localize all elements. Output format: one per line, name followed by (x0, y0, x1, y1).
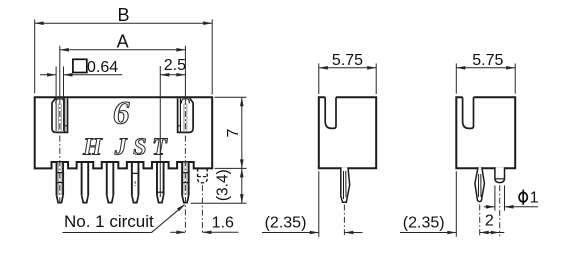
end view: body outline (456, 97, 515, 168)
front view: pin 5 lead (82, 162, 89, 203)
svg-text:2.5: 2.5 (164, 57, 186, 74)
end view: pin lead (kinked profile) (475, 167, 485, 201)
side view: pin centerline (343, 205, 345, 237)
svg-text:1.6: 1.6 (212, 215, 234, 232)
dimension 1.6 (170, 215, 238, 235)
dimension B extension lines (35, 19, 213, 94)
dimension 2.5 extension line (pin 5) (159, 66, 161, 197)
side view: dimension (2.35) (262, 214, 363, 234)
svg-text:(3.4): (3.4) (214, 169, 231, 201)
svg-text:0.64: 0.64 (87, 59, 118, 76)
dimension A extension lines (60, 46, 186, 97)
front view: connector body outline (35, 97, 213, 168)
label "No. 1 circuit" with leader arrow (63, 204, 186, 232)
front view: hidden boss (dashed) (198, 168, 208, 182)
side view: body outline (319, 97, 376, 168)
end view: pin centerline (479, 205, 481, 237)
dimension □0.64 (40, 59, 122, 76)
side view: dimension 5.75 (319, 52, 376, 69)
front view: pin 2 lead (157, 162, 164, 203)
front view: pin 3 lead (132, 162, 139, 203)
front view: pin 1 lead (182, 162, 189, 203)
end view: boss centerline (499, 185, 501, 236)
front view: pin detail ticks (57, 162, 189, 195)
dimension 2.5 (160, 57, 186, 77)
dimension 7 extension lines (215, 97, 247, 168)
svg-text:S: S (133, 134, 146, 160)
svg-text:7: 7 (225, 128, 242, 137)
svg-text:2: 2 (485, 213, 494, 230)
svg-text:No. 1 circuit: No. 1 circuit (64, 212, 154, 231)
dimension (3.4) extension line (pin tip) (191, 202, 247, 204)
svg-text:5.75: 5.75 (472, 52, 503, 69)
dimension A (60, 32, 186, 52)
side view: latch notch (325, 97, 336, 128)
end view: dimension φ1 extension lines (495, 185, 505, 210)
end view: locating boss (495, 167, 505, 182)
front view: boss centerline (201, 185, 203, 234)
front view: pin 1 centerline (59, 99, 61, 203)
front view: latch slot left (pin 1) (52, 98, 68, 132)
dimension (3.4) (214, 168, 243, 203)
end view: dimension 5.75 extension lines (456, 63, 515, 93)
front view: pin 6 centerline (extends to 1.6 dim) (184, 99, 186, 234)
svg-text:B: B (117, 5, 129, 25)
dimension 7 (225, 97, 243, 168)
front view: pin 4 lead (107, 162, 114, 203)
svg-text:(2.35): (2.35) (403, 214, 445, 231)
end view: dimension 5.75 (456, 52, 515, 69)
side view: pin lead (side profile) (341, 167, 350, 202)
front view: moulded marking "6" (113, 95, 130, 131)
svg-text:5.75: 5.75 (332, 52, 363, 69)
end view: dimension 2 (480, 213, 505, 235)
dimension □0.64 extension lines (56, 67, 63, 132)
end view: dimension (2.35) (400, 214, 456, 234)
svg-text:6: 6 (113, 95, 130, 131)
front view: latch slot right (pin 6) (178, 98, 194, 132)
end view: dimension φ1 (484, 190, 539, 209)
end view: latch notch (463, 97, 474, 128)
svg-text:A: A (117, 32, 129, 52)
end view: dimension (2.35) extension line (455, 171, 457, 237)
svg-text:(2.35): (2.35) (265, 214, 307, 231)
side view: dimension (2.35) extension line (318, 171, 320, 237)
front view: pin 6 lead (57, 162, 64, 203)
svg-text:H: H (82, 134, 103, 160)
dimension B (35, 5, 213, 25)
front view: moulded marking "H JST" (82, 134, 168, 160)
svg-text:J: J (114, 134, 128, 160)
side view: dimension 5.75 extension lines (319, 63, 376, 94)
svg-text:1: 1 (530, 190, 539, 207)
